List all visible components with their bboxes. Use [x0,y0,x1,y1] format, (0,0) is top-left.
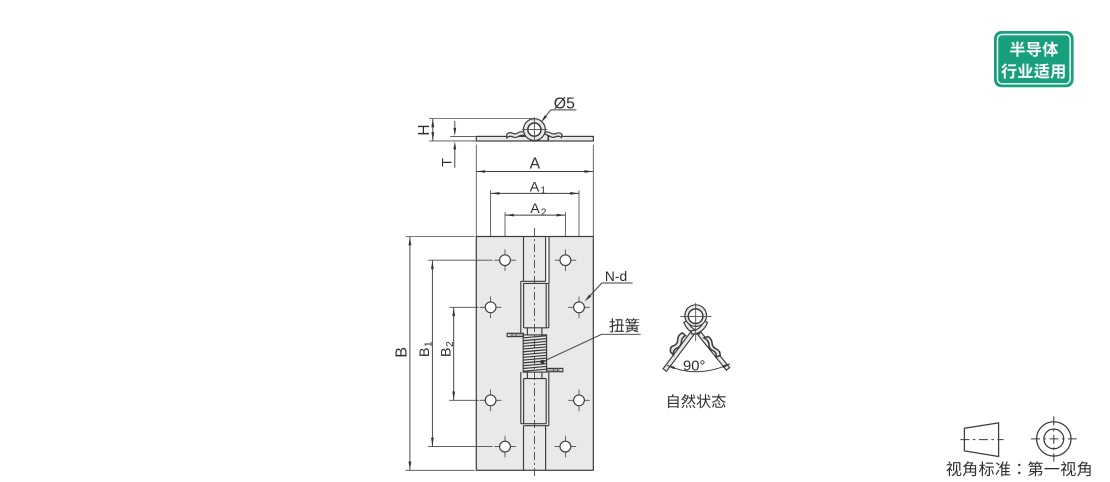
right leaf top edge line [548,237,550,284]
dimension B2 line with arrows [453,307,455,400]
dimension B1 line with arrows [431,260,433,446]
lower sleeve inner left line [523,379,525,424]
top view left torsion-spring arm (wavy) [507,132,525,138]
svg-text:N-d: N-d [605,269,627,284]
semiconductor badge inner white border [998,35,1071,84]
sleeve inner left line [523,283,525,327]
torsion spring coil [523,335,546,372]
badge line 1 (ban-dao-ti) [1010,42,1058,57]
mounting hole lower outer left [480,390,502,412]
mounting hole upper outer right [568,297,590,319]
svg-text:Ø5: Ø5 [554,95,575,112]
sleeve outer left line [520,281,522,334]
projection/extension line right (dim A) [592,145,594,237]
dimension A1 extension line left (to upper outer hole) [490,190,492,296]
first-angle symbol: circular view outer circle [1037,422,1071,456]
mounting hole bottom inner left [494,436,516,458]
white gap between top knuckle and right leaf [546,237,548,283]
lower sleeve outer left line [520,372,522,424]
leader end dot on spring [540,360,544,364]
svg-text:A: A [530,179,540,195]
mounting hole lower outer right [568,390,590,412]
bottom knuckle right line [545,426,547,471]
caption viewing-angle standard: first angle [946,461,1090,476]
dimension B1 extension lines [428,260,492,446]
hinge pin centerline [534,228,536,479]
mounting hole top inner right [555,249,577,271]
svg-text:1: 1 [424,341,435,347]
open-hinge icon: right wavy spring arm [702,335,723,358]
open-hinge icon: right leaf [696,330,730,370]
top view knuckle curl tail [537,134,549,141]
dimension B extension line bottom [405,469,474,471]
sleeve bottom line [524,327,549,329]
svg-text:2: 2 [445,341,456,347]
top view leaf division line [548,136,550,141]
top view knuckle outer circle [524,119,546,141]
dimension H line with arrows [432,119,434,141]
label O5 leader with arrow [543,110,550,120]
top knuckle right line [545,237,547,282]
mounting hole bottom inner right [555,436,577,458]
label torsion-spring underline [602,333,641,335]
svg-text:1: 1 [540,186,546,197]
dimension T upper arrow [454,121,456,129]
dimension B extension line top [405,236,474,238]
label N-d leader with arrow [587,283,602,299]
svg-text:H: H [416,124,433,135]
mounting hole upper outer left [480,297,502,319]
open-hinge icon: curl band left-to-right (crossing neck) [684,320,701,334]
open-hinge icon: curl band right-to-left (crossing neck) [691,320,708,334]
first-angle symbol: crosshair centerlines [1031,416,1077,461]
dimension A1 extension line right [578,190,580,296]
torsion spring bottom-right arm [547,368,563,371]
badge line 2 (hang-ye-shi-yong) [1001,63,1065,78]
90 degree arc with arrows [667,364,730,372]
dimension A2 extension line right [564,212,566,250]
top step lines [521,281,549,283]
first-angle symbol: circular view inner circle [1044,429,1064,449]
neck lines above spring [527,328,542,335]
label O5 underline [551,109,577,111]
sleeve inner right line [545,283,547,327]
top view knuckle centerline cross [522,117,548,141]
top view right torsion-spring arm (wavy) [544,132,563,138]
projection/extension line left (top view to front view, dim A) [475,145,477,237]
sleeve outer right line [548,283,550,327]
neck lines below spring [527,372,542,379]
open-hinge icon: knuckle outer circle [685,305,707,327]
top view plate (leaves seen edge-on) [476,136,593,141]
open-hinge icon: left leaf [663,330,696,372]
dimension T lower arrow [454,149,456,168]
svg-text:2: 2 [541,208,547,219]
svg-text:B: B [394,347,411,358]
svg-text:A: A [530,156,541,173]
svg-text:B: B [417,348,433,357]
lower sleeve inner right line [545,379,547,424]
first-angle symbol: truncated cone side view [964,423,998,457]
caption natural-state (zi-ran-zhuang-tai) [668,394,726,408]
top view: H extension line (knuckle top tangent) [429,118,534,120]
label torsion-spring (niu-huang) text [609,318,639,332]
torsion spring top-left arm [507,333,523,336]
open-hinge icon: centerline cross [680,303,711,341]
dimension A2 line with arrows [505,214,565,216]
lower sleeve top line [524,378,547,380]
svg-text:T: T [439,158,455,167]
top knuckle left line [523,237,525,282]
top view: plate bottom extension line [429,140,476,142]
mounting hole top inner left [494,249,516,271]
dimension A line with arrows [476,171,593,173]
open-hinge icon: pin hole [688,309,703,324]
label torsion-spring leader [542,334,601,362]
svg-text:90°: 90° [683,359,705,375]
label N-d underline [602,282,633,284]
svg-text:A: A [530,201,540,217]
bottom step lines [521,424,549,426]
dimension A1 line with arrows [491,192,579,194]
dimension B line with arrows [409,237,411,471]
open-hinge icon: left wavy spring arm [667,332,688,354]
lower sleeve outer right line [548,372,550,426]
dimension A2 extension line left (to top inner hole) [504,212,506,250]
top view knuckle pin hole [528,123,541,136]
semiconductor badge background [995,32,1074,87]
first-angle symbol: cone centerline [960,439,1003,441]
bottom knuckle left line [523,426,525,471]
svg-text:B: B [439,348,455,357]
front view hinge body (both leaves) [476,237,593,471]
top view: plate top extension line [450,135,475,137]
dimension B2 extension lines [449,307,479,400]
